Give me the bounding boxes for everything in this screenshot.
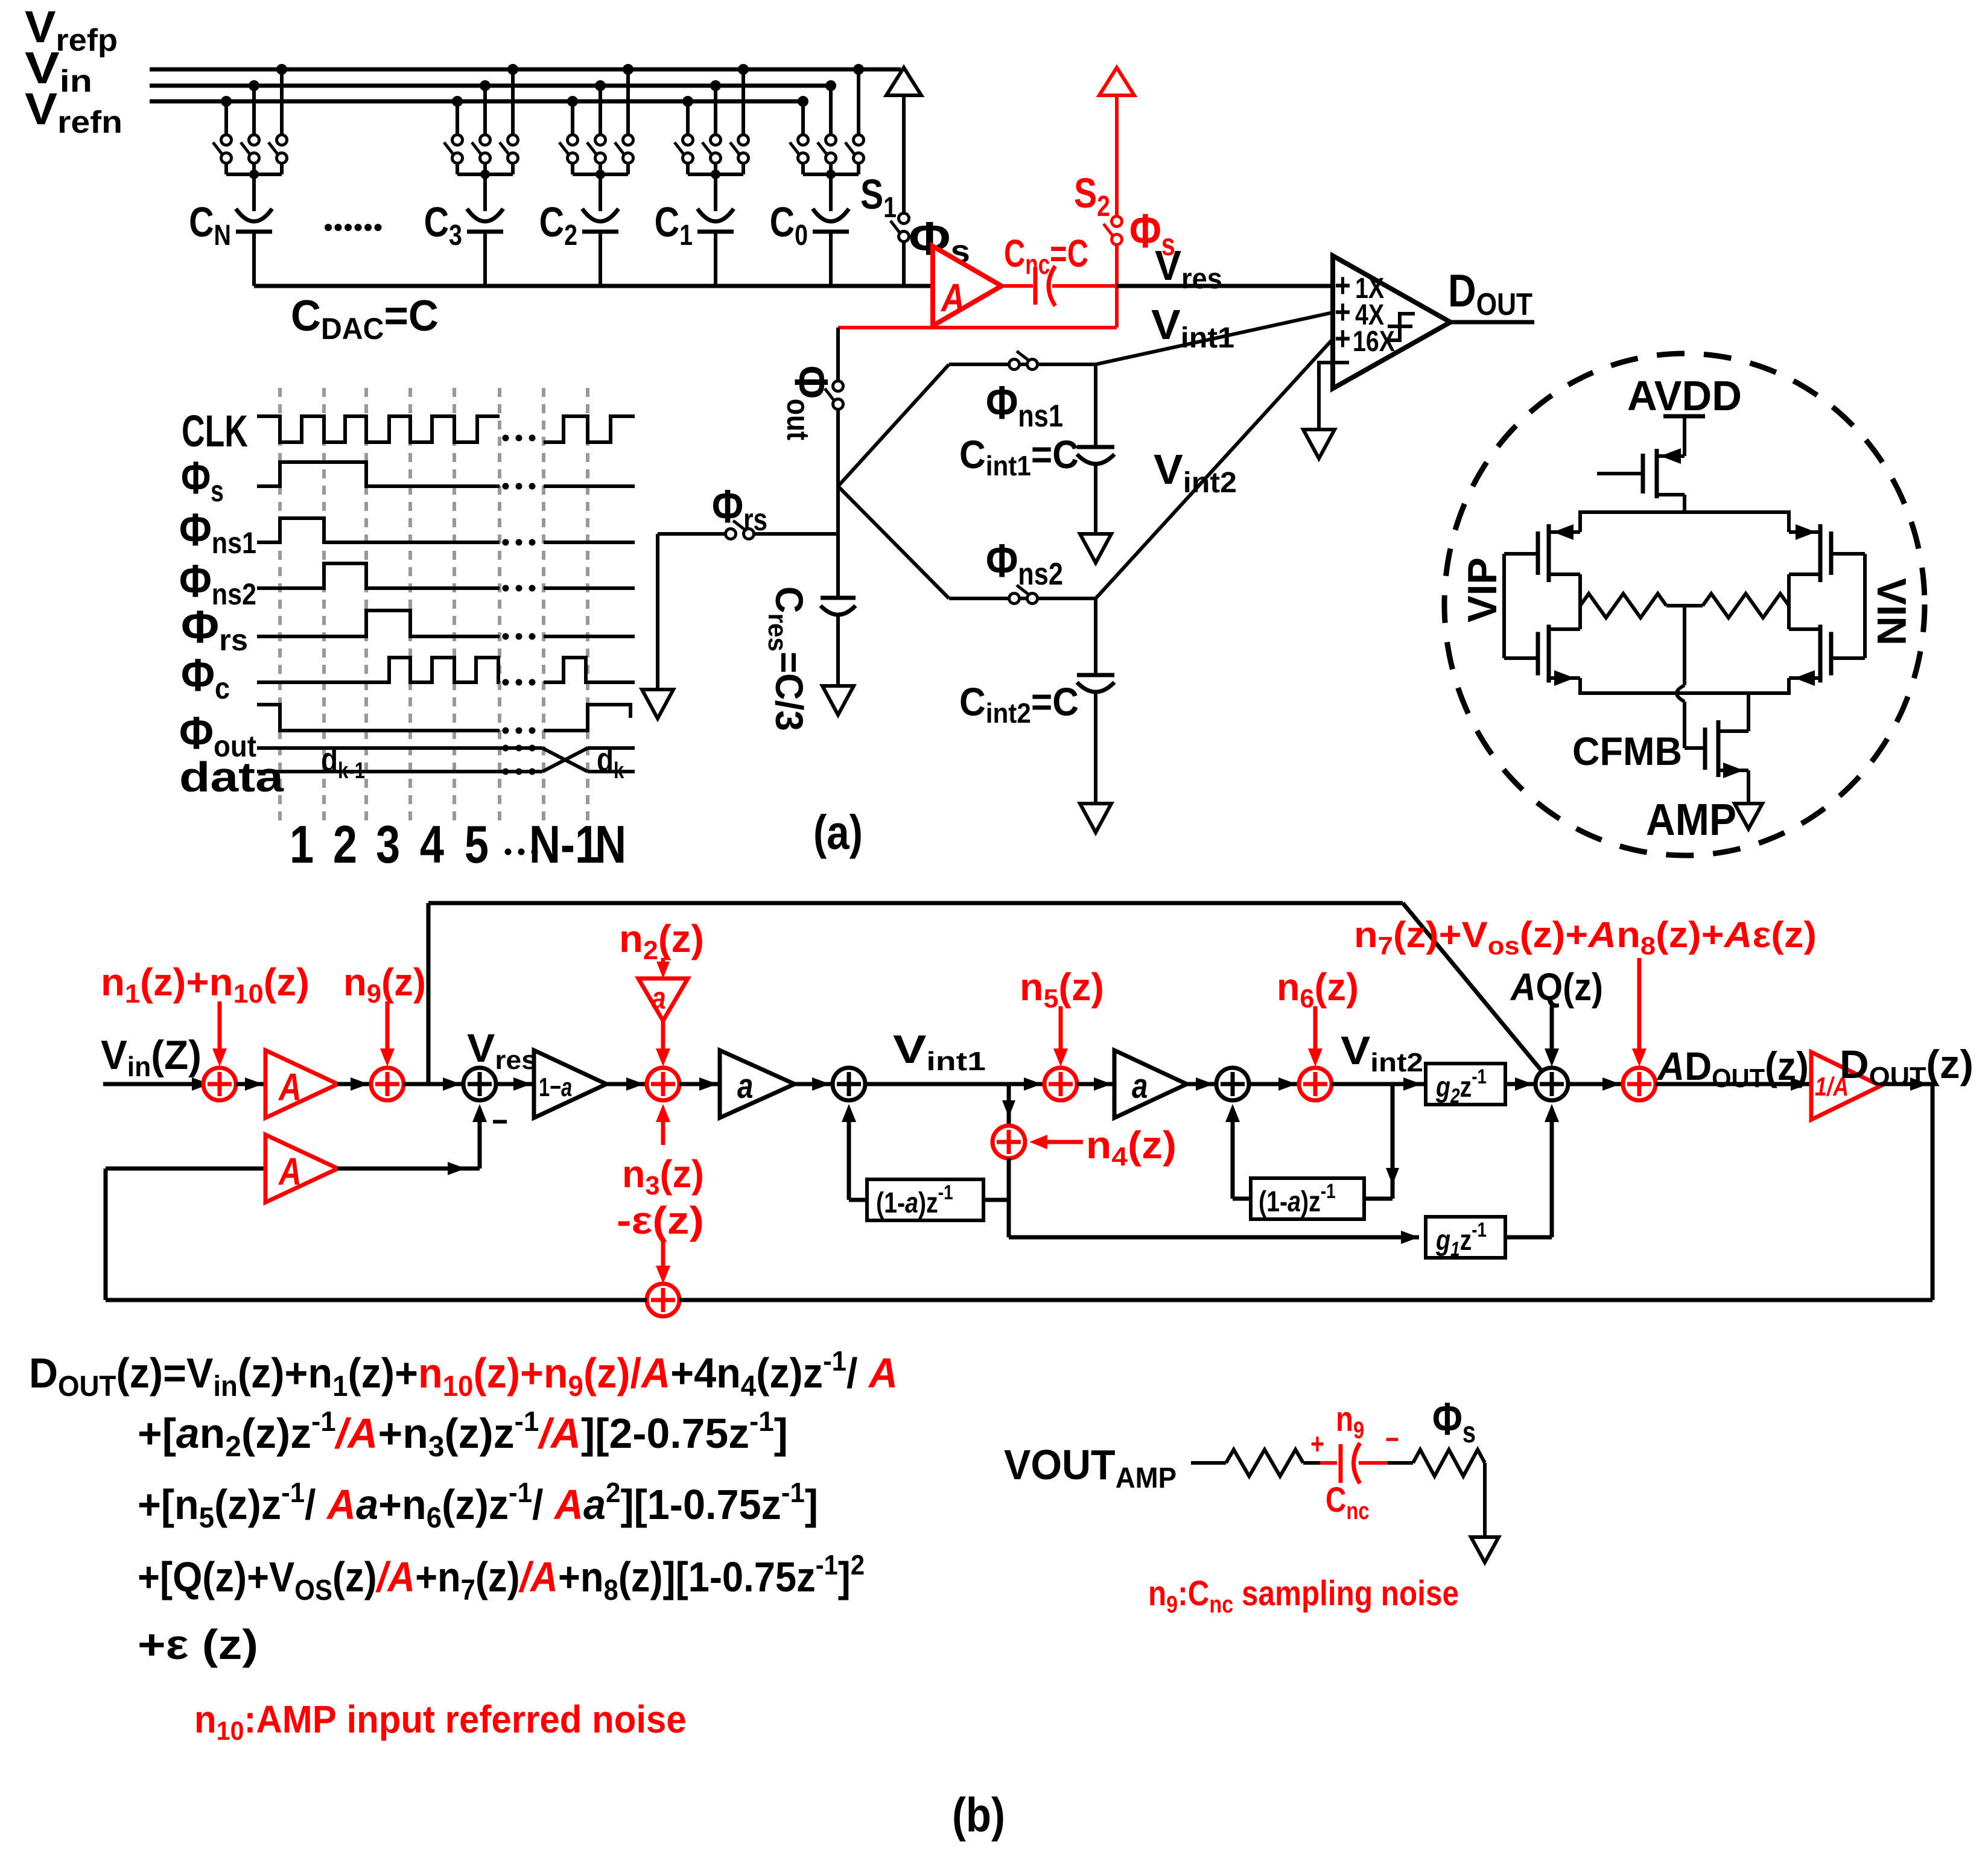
svg-text:n: n bbox=[1148, 1574, 1166, 1613]
svg-text:6: 6 bbox=[427, 1502, 442, 1533]
svg-text:/: / bbox=[846, 1349, 869, 1397]
svg-text:(z)z: (z)z bbox=[442, 1481, 509, 1528]
summer int1 (black) bbox=[833, 1068, 865, 1100]
switch sel-n C2 bbox=[568, 135, 578, 145]
svg-text:9: 9 bbox=[568, 1370, 583, 1402]
timing grid dashed lines bbox=[278, 388, 282, 825]
svg-text:(1-: (1- bbox=[1259, 1185, 1288, 1218]
svg-text:8: 8 bbox=[1640, 932, 1656, 960]
switch sel-in C1 bbox=[711, 135, 721, 145]
svg-text:z: z bbox=[1460, 1224, 1472, 1257]
svg-text:a: a bbox=[652, 981, 666, 1016]
wire amp output red bbox=[1002, 284, 1033, 288]
op-amp A feedback (red) bbox=[265, 1135, 338, 1202]
svg-text:N-1: N-1 bbox=[529, 815, 599, 874]
wire C1 to rail bbox=[714, 232, 717, 286]
svg-text:A: A bbox=[640, 1349, 670, 1397]
svg-text:Φ: Φ bbox=[909, 212, 950, 265]
wire feedforward diagonal into AQ summer bbox=[1403, 903, 1542, 1071]
wire amp A to summer n9 bbox=[338, 1082, 371, 1086]
node tap Vrefn for C3 bbox=[452, 96, 463, 107]
node feedforward junction bbox=[427, 903, 431, 1084]
svg-text:=C: =C bbox=[1031, 680, 1079, 725]
svg-text:(z): (z) bbox=[1765, 1044, 1809, 1088]
transistor left bottom (VIP NMOS) bbox=[1536, 632, 1540, 676]
wire DAC bottom rail bbox=[254, 284, 933, 288]
svg-text:n: n bbox=[1086, 1124, 1111, 1167]
svg-text:Φ: Φ bbox=[1432, 1393, 1462, 1444]
svg-text:C: C bbox=[767, 586, 810, 614]
waveform phi_out bbox=[257, 705, 500, 731]
svg-text:(z): (z) bbox=[660, 1153, 704, 1196]
wire phi_ns2 branch bbox=[949, 597, 1096, 600]
node Vint2 vertical to box2 bbox=[1391, 1084, 1395, 1199]
wire C2 to rail bbox=[599, 232, 602, 286]
svg-text:A: A bbox=[1723, 915, 1753, 955]
wire Vrefn bus bbox=[150, 100, 804, 104]
wire top rail bbox=[1578, 510, 1791, 514]
svg-text:10: 10 bbox=[233, 979, 264, 1008]
svg-text:n: n bbox=[1354, 915, 1378, 955]
switch sel-in CN bbox=[249, 135, 259, 145]
svg-text:C: C bbox=[424, 198, 449, 246]
svg-text:sampling noise: sampling noise bbox=[1233, 1574, 1459, 1613]
svg-text:(z)z: (z)z bbox=[444, 1410, 514, 1457]
svg-text:N: N bbox=[214, 219, 231, 252]
switch sel-p C3 bbox=[508, 135, 518, 145]
svg-text:3: 3 bbox=[376, 815, 400, 874]
svg-text:3: 3 bbox=[449, 219, 462, 252]
wire output to feedback corner bbox=[1881, 1082, 1932, 1086]
svg-text:ns2: ns2 bbox=[1018, 557, 1063, 592]
power AVDD stub bbox=[1663, 414, 1705, 419]
transistor M5 tail PMOS top bbox=[1641, 454, 1645, 493]
svg-text:data: data bbox=[179, 754, 284, 801]
switch sel-p C1 bbox=[738, 135, 749, 145]
svg-text:OS: OS bbox=[294, 1574, 332, 1606]
svg-text:+[: +[ bbox=[138, 1410, 176, 1457]
wire cap to resistor2 bbox=[1359, 1461, 1388, 1465]
svg-text:int1: int1 bbox=[926, 1046, 986, 1076]
svg-text:1: 1 bbox=[679, 219, 693, 252]
comparator clock stub and ground bbox=[1319, 363, 1349, 430]
svg-text:/: / bbox=[532, 1481, 554, 1528]
switch sel-n CN bbox=[221, 135, 232, 145]
svg-text:Φ: Φ bbox=[712, 481, 743, 533]
amp 1/A (red) bbox=[1811, 1052, 1881, 1120]
svg-text::C: :C bbox=[1178, 1574, 1209, 1613]
svg-text:/A: /A bbox=[518, 1554, 558, 1601]
summer n6 (red) bbox=[1299, 1068, 1332, 1100]
svg-text:-1: -1 bbox=[515, 1406, 539, 1437]
svg-text:(z): (z) bbox=[658, 917, 704, 960]
capacitor C1 bbox=[697, 209, 734, 221]
svg-text:Φ: Φ bbox=[179, 708, 214, 759]
wire CMFB sense down with hop bbox=[1683, 606, 1686, 685]
wire Vin bus bbox=[150, 84, 831, 88]
svg-text:nc: nc bbox=[1025, 249, 1050, 280]
wire Vrefp bus bbox=[150, 68, 901, 72]
waveform phi_ns1 bbox=[257, 518, 500, 542]
switch phi_ns1 bbox=[1009, 360, 1020, 370]
amp 1-a bbox=[534, 1050, 606, 1118]
wire S2 vertical red bbox=[1115, 95, 1119, 217]
wire C3 to rail bbox=[483, 232, 487, 286]
svg-text:A: A bbox=[1587, 915, 1616, 955]
svg-text:n: n bbox=[1020, 965, 1044, 1009]
wire node down to phi_out net red bbox=[1115, 286, 1119, 328]
svg-text:nc: nc bbox=[1209, 1590, 1233, 1617]
wire CN to rail bbox=[252, 232, 256, 286]
svg-text:-1: -1 bbox=[938, 1181, 953, 1203]
svg-text:]: ] bbox=[805, 1481, 818, 1528]
summer Vres (black) bbox=[463, 1068, 496, 1100]
wire VIN gate connector bbox=[1831, 552, 1865, 556]
waveform phi_ns2 bbox=[257, 563, 500, 588]
capacitor C3 bbox=[467, 209, 503, 221]
waveform phi_rs bbox=[257, 610, 500, 636]
wire box1 out up to summer int1 bbox=[849, 1198, 867, 1202]
svg-text:Φ: Φ bbox=[179, 556, 212, 607]
svg-text:ns1: ns1 bbox=[212, 526, 256, 560]
arrow n7 into summer red bbox=[1637, 958, 1642, 1057]
svg-text:(a): (a) bbox=[813, 805, 863, 859]
svg-text:V: V bbox=[101, 1033, 127, 1078]
svg-text:3: 3 bbox=[645, 1171, 659, 1200]
svg-text:0: 0 bbox=[795, 219, 808, 252]
svg-text:+: + bbox=[1335, 320, 1351, 357]
svg-text:−: − bbox=[492, 1103, 508, 1140]
node tap Vrefn for C0 bbox=[798, 96, 808, 107]
switch phi_out bbox=[836, 328, 840, 381]
transistor M6 tail NMOS bottom bbox=[1685, 746, 1705, 750]
svg-text:2: 2 bbox=[643, 936, 658, 965]
svg-text:Φ: Φ bbox=[986, 534, 1018, 587]
wire switch join C2 bbox=[571, 163, 574, 174]
svg-text:-1: -1 bbox=[311, 1406, 336, 1437]
box (1-a)z-1 first bbox=[867, 1179, 983, 1220]
svg-text:/A: /A bbox=[334, 1410, 378, 1457]
svg-text:2: 2 bbox=[606, 1477, 620, 1508]
svg-text:s: s bbox=[1462, 1415, 1476, 1449]
svg-text:−: − bbox=[550, 1073, 561, 1102]
capacitor Cint1 bbox=[1094, 364, 1097, 447]
svg-text:3: 3 bbox=[428, 1431, 445, 1463]
node tap Vrefp for C1 bbox=[738, 64, 749, 75]
wire VIP gate connector bbox=[1504, 552, 1538, 556]
svg-text:a: a bbox=[737, 1067, 753, 1106]
svg-text:1: 1 bbox=[539, 1073, 550, 1102]
svg-text:5: 5 bbox=[1044, 984, 1059, 1013]
transistor right bottom (VIN NMOS) bbox=[1829, 632, 1834, 676]
svg-text:(z): (z) bbox=[475, 1554, 520, 1601]
svg-text:A: A bbox=[278, 1150, 302, 1193]
wire S1 vertical bbox=[902, 95, 906, 214]
wire resistor middle node bbox=[1666, 604, 1703, 607]
svg-text:+n: +n bbox=[378, 1481, 427, 1528]
arrow AQ into summer bbox=[1550, 1006, 1554, 1057]
svg-text:d: d bbox=[597, 741, 614, 778]
gain a triangle red (pointing down) bbox=[638, 978, 688, 1021]
data bus crossover bbox=[542, 748, 588, 772]
svg-text:(z): (z) bbox=[1128, 1124, 1177, 1167]
svg-text:(z)z: (z)z bbox=[214, 1481, 281, 1528]
svg-text:VIP: VIP bbox=[1460, 557, 1506, 623]
svg-text:1: 1 bbox=[332, 1370, 348, 1402]
wire phi_rs to ground bbox=[656, 534, 659, 690]
wire feedforward top bbox=[428, 901, 1403, 905]
wire Vint2 diagonal to comparator bbox=[1096, 339, 1333, 598]
svg-text:n: n bbox=[1616, 915, 1640, 955]
svg-text:S: S bbox=[860, 170, 883, 218]
svg-text:(z): (z) bbox=[1058, 965, 1104, 1009]
wire to capacitor CN bbox=[252, 174, 256, 211]
svg-text:a: a bbox=[905, 1187, 918, 1219]
capacitor Cint2 bbox=[1094, 598, 1097, 675]
wire to capacitor C0 bbox=[829, 174, 833, 211]
svg-text:9: 9 bbox=[367, 979, 381, 1009]
svg-text:nc: nc bbox=[1346, 1497, 1369, 1524]
svg-text:]: ] bbox=[774, 1410, 788, 1457]
wire switch join CN bbox=[224, 163, 228, 174]
label Cres=C/3 rotated bbox=[763, 586, 810, 731]
svg-text:V: V bbox=[1154, 446, 1183, 493]
svg-text:a: a bbox=[1288, 1185, 1301, 1218]
svg-text:][2-0.75z: ][2-0.75z bbox=[581, 1410, 749, 1457]
svg-text:D: D bbox=[29, 1349, 58, 1397]
svg-text:1: 1 bbox=[883, 191, 897, 224]
wire taps to switches C2 bbox=[571, 101, 574, 135]
svg-text:1: 1 bbox=[125, 979, 140, 1008]
wire junction diagonals bbox=[838, 364, 949, 486]
svg-text:(z)+n: (z)+n bbox=[238, 1349, 332, 1397]
svg-text:]: ] bbox=[838, 1554, 851, 1601]
amp a first integrator bbox=[720, 1050, 795, 1118]
wire switch join C3 bbox=[456, 163, 459, 174]
svg-text:n: n bbox=[101, 960, 125, 1004]
svg-text:4: 4 bbox=[1111, 1141, 1128, 1172]
svg-text:C: C bbox=[655, 198, 679, 246]
svg-text:AVDD: AVDD bbox=[1627, 372, 1742, 419]
svg-text:(z)/: (z)/ bbox=[583, 1349, 641, 1397]
svg-text:A: A bbox=[326, 1481, 356, 1528]
svg-text:D: D bbox=[1685, 1044, 1712, 1088]
svg-text:(1-: (1- bbox=[876, 1187, 905, 1219]
switch sel-p C2 bbox=[623, 135, 634, 145]
waveform phi_c bbox=[257, 658, 500, 682]
ground Cint1 bbox=[1080, 534, 1111, 563]
node tap Vin for C3 bbox=[480, 80, 491, 91]
wire n5 to amp a2 bbox=[1077, 1082, 1114, 1086]
svg-text:Φ: Φ bbox=[181, 452, 211, 503]
switch sel-in C0 bbox=[826, 135, 836, 145]
svg-text:+n: +n bbox=[415, 1554, 461, 1601]
node tap Vrefp for C3 bbox=[507, 64, 518, 75]
node tap Vrefn for C1 bbox=[682, 96, 693, 107]
svg-text:a: a bbox=[176, 1410, 200, 1457]
svg-text:(z)z: (z)z bbox=[756, 1349, 823, 1397]
svg-text:int2: int2 bbox=[1370, 1047, 1423, 1077]
svg-text:-1: -1 bbox=[1321, 1179, 1336, 1202]
comparator (multi-input, 1X/4X/16X) bbox=[1333, 256, 1450, 388]
svg-text:Φ: Φ bbox=[179, 505, 212, 556]
svg-text:C: C bbox=[291, 291, 321, 340]
svg-text:1: 1 bbox=[290, 815, 314, 874]
svg-text:A: A bbox=[940, 275, 965, 320]
svg-text:(z)+V: (z)+V bbox=[1393, 915, 1488, 955]
svg-text:)z: )z bbox=[1301, 1185, 1321, 1218]
wire bottom rail bbox=[1578, 691, 1791, 695]
node tap Vin for CN bbox=[249, 80, 259, 91]
wire to cap red bbox=[1303, 1461, 1320, 1465]
svg-text:C: C bbox=[189, 198, 214, 246]
svg-text:refn: refn bbox=[57, 104, 122, 139]
wire taps to switches C1 bbox=[686, 101, 690, 135]
wire summer int1 to Vint1 node bbox=[865, 1082, 1044, 1086]
capacitor C2 bbox=[582, 209, 618, 221]
wire Dout output bbox=[1450, 320, 1534, 325]
svg-text:in: in bbox=[213, 1370, 238, 1402]
box g1 z-1 bbox=[1426, 1217, 1505, 1258]
svg-text:+ε (z): +ε (z) bbox=[138, 1621, 258, 1668]
svg-text:AMP: AMP bbox=[1646, 795, 1736, 845]
switch phi_rs bbox=[726, 529, 736, 539]
ground phi_rs bbox=[642, 690, 673, 718]
svg-text:-1: -1 bbox=[749, 1406, 774, 1437]
svg-text:(z)+: (z)+ bbox=[1656, 915, 1724, 955]
svg-text:2: 2 bbox=[564, 219, 577, 252]
arrow n6 into summer red bbox=[1313, 1006, 1318, 1057]
wire summer1 to amp A bbox=[236, 1082, 265, 1086]
switch phi_ns2 bbox=[1009, 594, 1020, 604]
svg-text:res: res bbox=[495, 1045, 537, 1075]
svg-text:8: 8 bbox=[604, 1574, 618, 1606]
svg-text:int1: int1 bbox=[986, 451, 1031, 481]
svg-text:k-1: k-1 bbox=[338, 758, 365, 784]
wire Cnc to node red bbox=[1052, 284, 1117, 288]
svg-text:c: c bbox=[215, 672, 230, 706]
ground Cres bbox=[822, 686, 854, 715]
arrow n3 eps into summer from below red bbox=[661, 1110, 665, 1145]
svg-text:V: V bbox=[467, 1027, 495, 1071]
svg-text:/A: /A bbox=[537, 1410, 581, 1457]
svg-text:Q(z): Q(z) bbox=[1535, 965, 1603, 1009]
wire g1 to AQ summer bbox=[1505, 1235, 1552, 1240]
svg-text:10: 10 bbox=[443, 1370, 474, 1402]
node tap Vin for C0 bbox=[825, 80, 836, 91]
svg-text:res: res bbox=[1181, 262, 1222, 295]
svg-text:A: A bbox=[278, 1066, 302, 1109]
ground Cint2 bbox=[1080, 804, 1111, 832]
switch sel-in C3 bbox=[480, 135, 491, 145]
summer n2 n3 (red) bbox=[647, 1068, 679, 1100]
svg-text:-1: -1 bbox=[1472, 1065, 1487, 1088]
svg-text:AMP: AMP bbox=[1116, 1462, 1177, 1494]
arrow eps down to feedback summer red bbox=[661, 1238, 665, 1276]
box (1-a)z-1 second bbox=[1251, 1178, 1364, 1219]
capacitor Cnc sampling (red) bbox=[1339, 1444, 1343, 1483]
wire taps to switches CN bbox=[224, 101, 228, 135]
capacitor Cres bbox=[836, 596, 840, 600]
svg-text:V: V bbox=[1155, 242, 1181, 289]
svg-text:OUT: OUT bbox=[1712, 1064, 1765, 1093]
svg-text:(z): (z) bbox=[381, 960, 426, 1004]
svg-text:)z: )z bbox=[918, 1187, 938, 1219]
svg-text:VOUT: VOUT bbox=[1004, 1441, 1116, 1488]
svg-text:-1: -1 bbox=[281, 1477, 305, 1508]
switch S1 bbox=[899, 214, 909, 224]
svg-text:S: S bbox=[1074, 169, 1097, 217]
svg-text:g: g bbox=[1435, 1224, 1450, 1257]
svg-text:+[n: +[n bbox=[138, 1481, 199, 1528]
dashed circle amplifier boundary bbox=[1444, 354, 1925, 855]
svg-text:C: C bbox=[539, 198, 564, 246]
svg-text:C: C bbox=[1004, 232, 1025, 276]
resistor Ron2 phi_s bbox=[1413, 1450, 1485, 1476]
wire feedback into amp A2 bbox=[106, 1167, 265, 1171]
svg-text:7: 7 bbox=[461, 1574, 475, 1606]
svg-text:A: A bbox=[1510, 965, 1535, 1009]
svg-text:C: C bbox=[959, 433, 986, 477]
svg-text:out: out bbox=[780, 399, 815, 440]
svg-text:/: / bbox=[305, 1481, 327, 1528]
svg-text:refp: refp bbox=[56, 23, 118, 58]
svg-text:A: A bbox=[553, 1481, 583, 1528]
svg-text:N: N bbox=[595, 815, 626, 874]
node tap Vin for C1 bbox=[710, 80, 721, 91]
svg-text:s: s bbox=[211, 474, 224, 508]
svg-text:-1: -1 bbox=[1472, 1218, 1487, 1241]
svg-text:in: in bbox=[60, 64, 92, 99]
summer int2 (black) bbox=[1216, 1068, 1249, 1100]
node Vint1 vertical with n4 bbox=[1007, 1084, 1011, 1126]
op-amp A (red residue amplifier) bbox=[933, 246, 1002, 326]
svg-text:(z)+n: (z)+n bbox=[140, 960, 233, 1004]
svg-text:rs: rs bbox=[743, 503, 767, 538]
resistor left CMFB bbox=[1580, 594, 1666, 618]
wire amp a2 to summer int2 bbox=[1187, 1082, 1216, 1086]
capacitor Cnc (red, series) bbox=[1034, 267, 1038, 305]
svg-text:(z): (z) bbox=[264, 960, 310, 1004]
waveform CLK bbox=[257, 416, 500, 442]
svg-text:a: a bbox=[1132, 1067, 1148, 1106]
wire to capacitor C2 bbox=[599, 174, 602, 211]
svg-text:5: 5 bbox=[465, 815, 489, 874]
transistor right top (VIN PMOS) bbox=[1829, 531, 1834, 575]
svg-text:int1: int1 bbox=[1181, 322, 1234, 354]
svg-text:(z): (z) bbox=[1315, 966, 1359, 1009]
svg-text:2: 2 bbox=[225, 1431, 241, 1463]
svg-text:int2: int2 bbox=[986, 698, 1031, 729]
svg-text:A: A bbox=[1656, 1044, 1685, 1088]
svg-text:=C/3: =C/3 bbox=[767, 652, 810, 731]
svg-text:9: 9 bbox=[1166, 1590, 1178, 1617]
svg-text:res: res bbox=[763, 614, 792, 652]
svg-text:6: 6 bbox=[1300, 984, 1314, 1013]
svg-text:os: os bbox=[1488, 932, 1520, 960]
svg-text:-1: -1 bbox=[816, 1550, 838, 1581]
svg-text:4: 4 bbox=[420, 815, 444, 874]
svg-text:1/: 1/ bbox=[1815, 1072, 1835, 1102]
summer AQ (black) bbox=[1535, 1068, 1568, 1100]
arrow gain a into summer red bbox=[661, 1021, 665, 1057]
svg-text:2: 2 bbox=[333, 815, 357, 874]
svg-text:A: A bbox=[868, 1349, 898, 1397]
svg-text:4: 4 bbox=[741, 1370, 756, 1402]
wire g1 long branch bbox=[1009, 1235, 1419, 1240]
svg-text:n: n bbox=[1277, 966, 1300, 1009]
switch sel-n C3 bbox=[453, 135, 463, 145]
